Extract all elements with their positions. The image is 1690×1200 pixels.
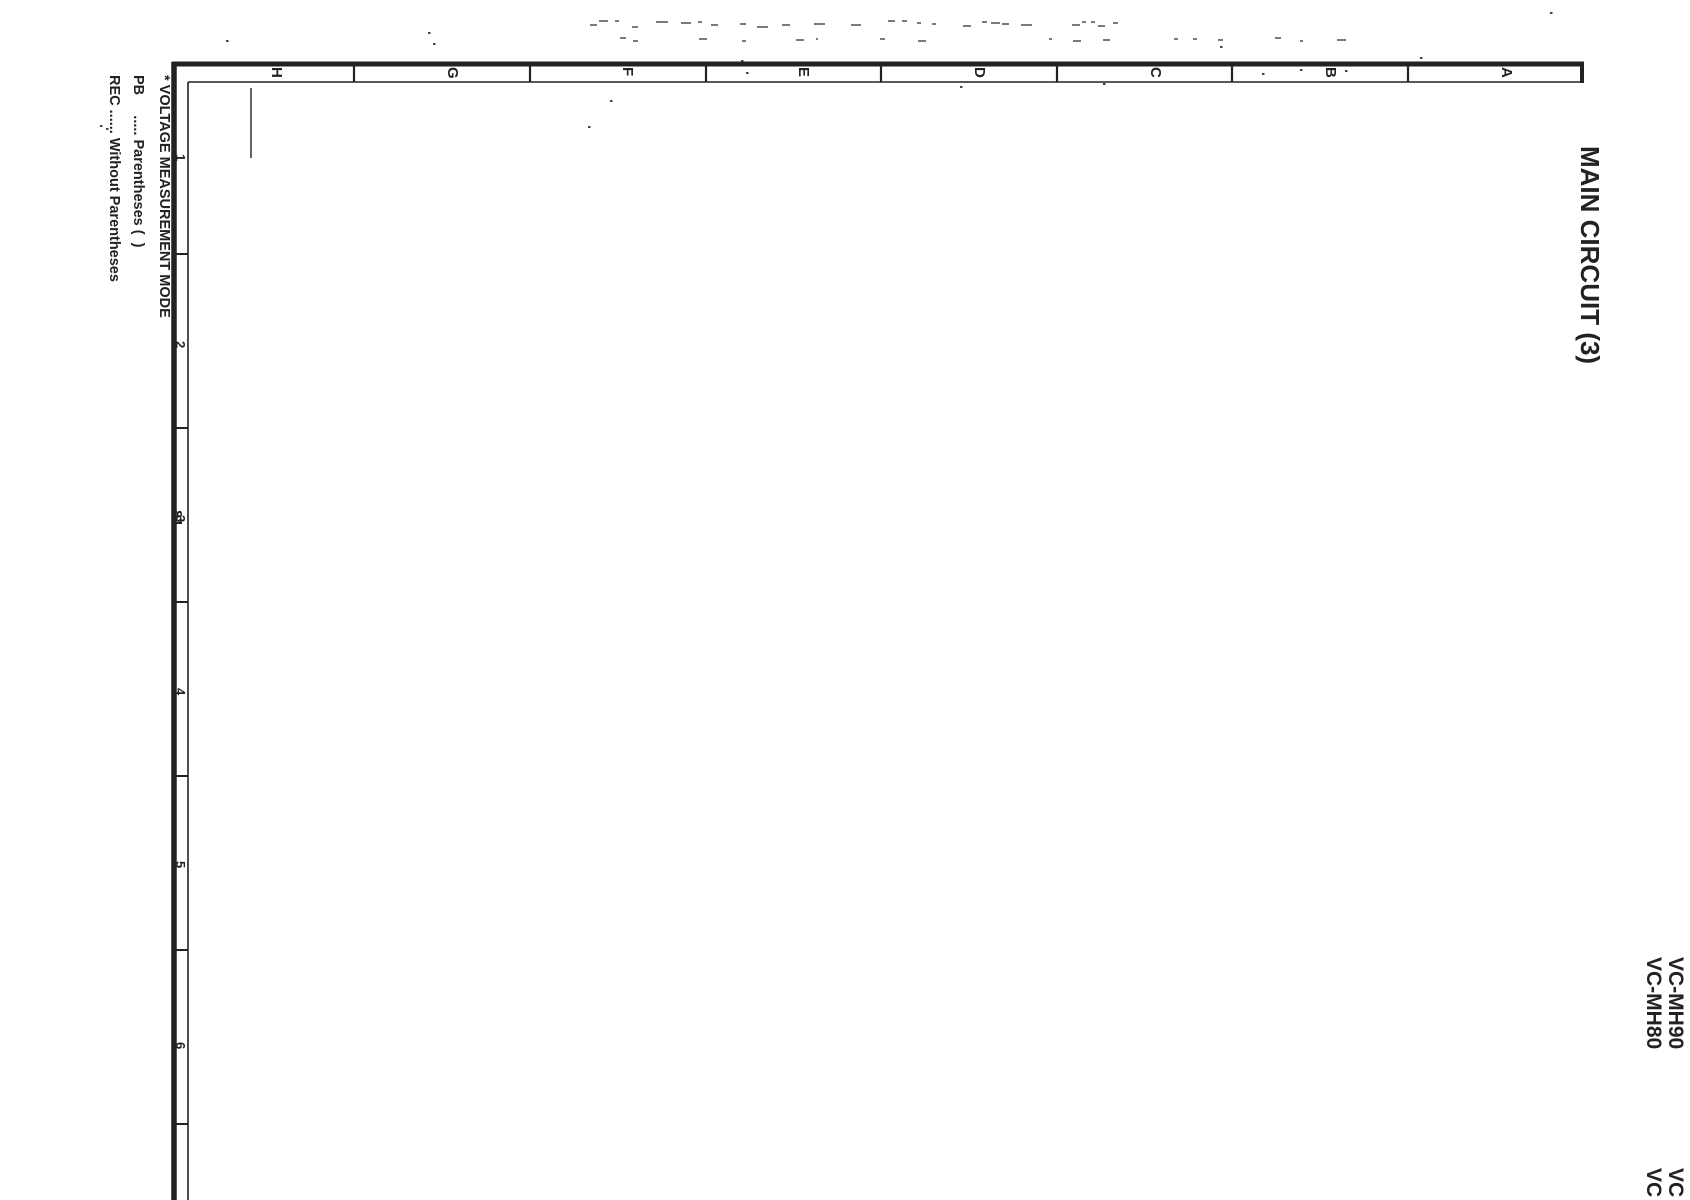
- svg-text:H: H: [268, 67, 285, 78]
- svg-text:G: G: [444, 67, 461, 79]
- svg-text:C: C: [1147, 67, 1164, 78]
- grid dividers: [353, 64, 355, 82]
- svg-text:B: B: [1322, 67, 1339, 78]
- svg-text:VC: VC: [1642, 1168, 1665, 1197]
- svg-text:2: 2: [173, 341, 188, 348]
- svg-text:* VOLTAGE MEASUREMENT MODE: * VOLTAGE MEASUREMENT MODE: [156, 75, 172, 318]
- svg-text:4: 4: [173, 688, 188, 696]
- svg-text:6: 6: [173, 1042, 188, 1049]
- svg-text:PB ..... Parentheses ( ): PB ..... Parentheses ( ): [130, 75, 146, 248]
- svg-text:81: 81: [168, 510, 185, 527]
- row dividers: [174, 253, 188, 255]
- svg-text:VC-MH80: VC-MH80: [1642, 957, 1665, 1049]
- outer frame left band: [171, 62, 177, 1200]
- outer frame top band: [172, 62, 1584, 67]
- svg-text:F: F: [619, 67, 636, 76]
- svg-text:5: 5: [173, 861, 188, 868]
- scan noise strip: [590, 21, 1346, 41]
- svg-text:VC-MH90: VC-MH90: [1664, 957, 1687, 1049]
- svg-text:VC: VC: [1664, 1168, 1687, 1197]
- svg-text:1: 1: [173, 154, 188, 161]
- svg-text:A: A: [1498, 67, 1515, 78]
- svg-text:D: D: [971, 67, 988, 78]
- svg-text:REC ...... Without Parentheses: REC ...... Without Parentheses: [106, 75, 122, 282]
- svg-text:E: E: [795, 67, 812, 77]
- stray vertical mark top-left: [250, 88, 252, 158]
- svg-text:MAIN CIRCUIT (3): MAIN CIRCUIT (3): [1575, 146, 1605, 364]
